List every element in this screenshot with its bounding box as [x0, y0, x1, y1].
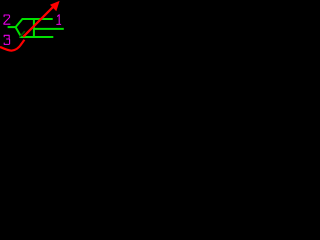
pin number 1 — [57, 15, 61, 25]
wire: vertical tie — [33, 19, 35, 37]
wiper arrow shaft — [23, 5, 55, 37]
pin number 3 — [4, 35, 9, 44]
wire: upper branch and top rail — [16, 19, 53, 27]
wiper arrow head — [50, 1, 60, 11]
wire: diagonal from junction to bottom rail — [16, 27, 21, 36]
wire: pin 2 lead — [8, 26, 16, 28]
wire: bottom rail — [20, 36, 54, 38]
wiper arrow tail curve — [0, 40, 24, 51]
wire: dark diagonal to wiper — [20, 31, 25, 37]
pin number 2 — [4, 15, 10, 24]
wire: pin 1 lead (middle rail) — [33, 28, 64, 30]
